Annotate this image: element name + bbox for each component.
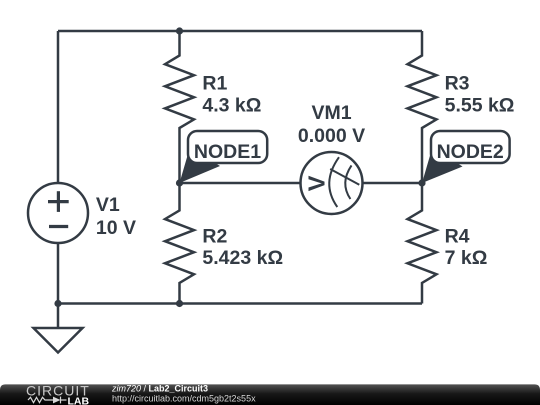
resistor R2: [165, 183, 194, 304]
wire: top rail left segment: [58, 30, 180, 33]
svg-text:7 kΩ: 7 kΩ: [445, 247, 488, 269]
svg-text:0.000 V: 0.000 V: [298, 125, 365, 147]
wire: middle left (NODE1 to voltmeter): [180, 182, 301, 185]
wire: bottom rail right segment: [180, 302, 423, 305]
voltage source V1 plus sign: [48, 191, 69, 212]
voltmeter VM1 needle: [330, 169, 359, 185]
junction dot ground: [54, 300, 61, 307]
svg-text:5.423 kΩ: 5.423 kΩ: [202, 247, 283, 269]
svg-text:R1: R1: [202, 72, 227, 94]
svg-text:V: V: [303, 175, 329, 191]
junction dot bottom rail R2: [176, 300, 183, 307]
voltmeter VM1 scale arc 1: [329, 157, 339, 207]
resistor R3: [408, 31, 437, 183]
resistor R1: [165, 31, 194, 183]
node NODE2 flag: [422, 131, 510, 183]
resistor R4: [408, 183, 437, 304]
junction dot node NODE1: [176, 179, 183, 186]
voltage source V1 body: [28, 183, 88, 243]
footer bar: [0, 384, 540, 405]
svg-text:10 V: 10 V: [96, 217, 136, 239]
footer logo circuit glyph: [28, 397, 67, 404]
wire: top rail right segment: [180, 30, 423, 33]
voltmeter VM1 scale arc 2: [345, 165, 351, 199]
svg-text:LAB: LAB: [68, 395, 90, 405]
junction dot top rail: [176, 27, 183, 34]
voltmeter VM1 body: [301, 152, 363, 214]
svg-text:NODE2: NODE2: [437, 141, 504, 163]
wire: top-left vertical (V1 to top rail): [57, 31, 60, 183]
svg-text:R4: R4: [445, 225, 470, 247]
node NODE1 flag: [180, 131, 268, 183]
junction dot node NODE2: [418, 179, 425, 186]
svg-text:R3: R3: [445, 72, 470, 94]
svg-text:V1: V1: [96, 194, 120, 216]
svg-text:VM1: VM1: [311, 102, 351, 124]
wire: bottom rail left segment: [58, 302, 180, 305]
wire: middle right (voltmeter to NODE2): [363, 182, 423, 185]
svg-text:NODE1: NODE1: [194, 141, 261, 163]
svg-text:zim720 / Lab2_Circuit3: zim720 / Lab2_Circuit3: [111, 384, 208, 394]
svg-text:http://circuitlab.com/cdm5gb2t: http://circuitlab.com/cdm5gb2t2s55x: [112, 394, 256, 404]
svg-text:5.55 kΩ: 5.55 kΩ: [445, 95, 515, 117]
wire: V1 bottom lead: [57, 243, 60, 304]
svg-text:4.3 kΩ: 4.3 kΩ: [202, 95, 261, 117]
voltage source V1 minus sign: [49, 225, 68, 228]
svg-text:R2: R2: [202, 225, 227, 247]
ground symbol: [34, 304, 83, 353]
